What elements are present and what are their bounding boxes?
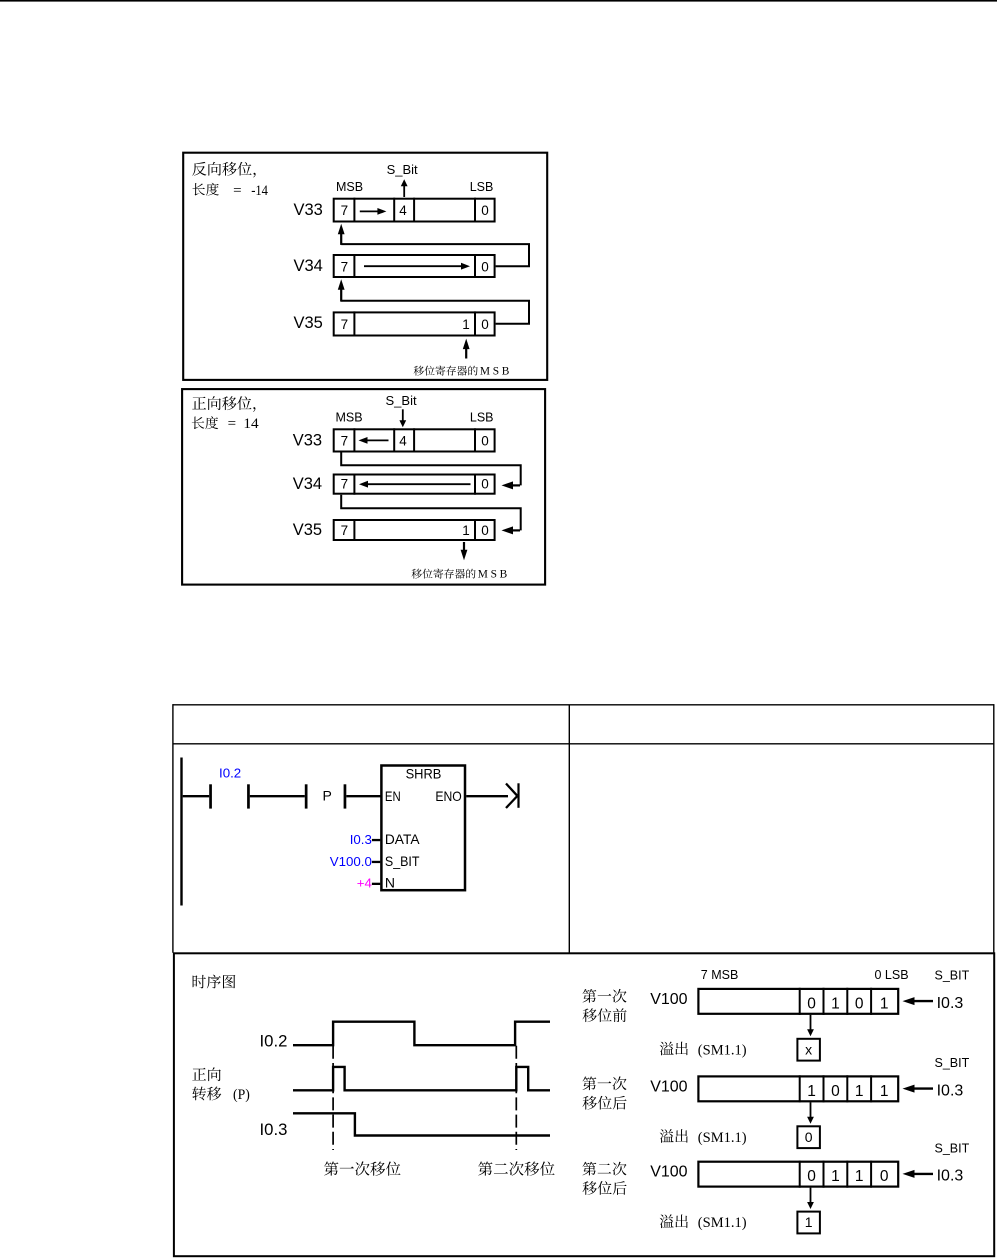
svg-text:4: 4 xyxy=(399,203,407,218)
svg-text:(P): (P) xyxy=(233,1087,250,1103)
svg-text:1: 1 xyxy=(855,1168,864,1185)
caption: chang du (length) box2 xyxy=(192,416,218,429)
svg-text:1: 1 xyxy=(855,1083,864,1100)
caption line2 (before first shift) xyxy=(583,1008,627,1022)
S_Bit arrow up (box1) xyxy=(401,179,408,197)
svg-text:ENO: ENO xyxy=(435,788,461,804)
MSB pointer arrow down (box2) xyxy=(461,542,468,560)
svg-text:V35: V35 xyxy=(293,521,322,539)
svg-text:-14: -14 xyxy=(251,183,268,199)
svg-text:V34: V34 xyxy=(294,257,323,275)
svg-text:0: 0 xyxy=(481,203,489,218)
table column divider xyxy=(568,705,570,953)
V33 divider d (box1) xyxy=(474,198,476,223)
svg-text:1: 1 xyxy=(462,523,470,538)
caption line2 (after first shift) xyxy=(583,1096,627,1110)
svg-text:DATA: DATA xyxy=(385,831,420,847)
svg-text:0: 0 xyxy=(481,434,489,449)
contact P left bar xyxy=(305,784,308,808)
wire contact I0.2 to contact P xyxy=(250,795,305,797)
input arrow from I0.3 (after second shift) xyxy=(903,1170,934,1178)
cell divider 1 (after second shift) xyxy=(799,1161,801,1188)
svg-text:I0.3: I0.3 xyxy=(350,832,372,847)
svg-text:=: = xyxy=(228,416,236,432)
svg-text:I0.2: I0.2 xyxy=(260,1032,288,1050)
svg-text:=: = xyxy=(233,183,241,199)
register V34 (box2) xyxy=(334,475,495,494)
V33 divider c (box2) xyxy=(413,428,415,452)
N pin tick xyxy=(372,883,380,885)
svg-text:7: 7 xyxy=(341,523,349,538)
caption: MSB of shift register (box1) xyxy=(414,365,478,375)
V35 divider b (box2) xyxy=(474,519,476,541)
svg-text:4: 4 xyxy=(399,434,407,449)
cell divider 4 (after second shift) xyxy=(870,1161,872,1188)
caption line2 (after second shift) xyxy=(583,1181,627,1195)
overflow arrow down (after second shift) xyxy=(807,1188,814,1209)
contact I0.2 right bar xyxy=(247,784,250,808)
V33 divider d (box2) xyxy=(474,428,476,452)
svg-text:0: 0 xyxy=(481,317,489,332)
contact I0.2 left bar xyxy=(209,784,212,808)
table left border xyxy=(172,704,174,953)
overflow arrow down (after first shift) xyxy=(807,1102,814,1123)
svg-text:0: 0 xyxy=(807,995,816,1012)
svg-text:0: 0 xyxy=(481,259,489,274)
register V33 (box2) xyxy=(334,429,495,451)
svg-text:+4: +4 xyxy=(357,876,372,891)
svg-text:0: 0 xyxy=(807,1168,816,1185)
register V35 (box1) xyxy=(334,312,495,335)
ENO arrow terminal bar xyxy=(517,783,519,808)
svg-text:14: 14 xyxy=(243,416,259,432)
cell divider 1 (before first shift) xyxy=(799,988,801,1015)
waveform I0.3 xyxy=(293,1113,550,1135)
svg-text:MSB: MSB xyxy=(480,366,510,378)
V33 divider b (box2) xyxy=(393,428,395,452)
waveform P pulse xyxy=(293,1067,550,1090)
cell divider 2 (after second shift) xyxy=(823,1161,825,1188)
caption: first shift xyxy=(324,1161,400,1175)
V33 divider b (box1) xyxy=(393,198,395,223)
svg-text:7: 7 xyxy=(341,434,349,449)
svg-text:P: P xyxy=(323,788,332,804)
top horizontal rule xyxy=(0,0,997,2)
label: zhuan yi (transition) xyxy=(192,1086,221,1100)
wire V33.7 down-right (box2) xyxy=(341,453,521,486)
svg-text:1: 1 xyxy=(880,995,889,1012)
MSB pointer arrow (box1) xyxy=(463,339,470,359)
svg-text:V33: V33 xyxy=(294,201,323,219)
svg-text:V100: V100 xyxy=(650,991,687,1008)
svg-text:1: 1 xyxy=(831,1168,840,1185)
register V34 (box1) xyxy=(334,255,495,277)
svg-text:S_BIT: S_BIT xyxy=(935,1141,970,1155)
overflow box (before first shift) xyxy=(797,1039,820,1061)
caption: overflow (before first shift) xyxy=(660,1042,688,1056)
caption: overflow (after first shift) xyxy=(660,1129,688,1143)
overflow box (after first shift) xyxy=(797,1126,820,1148)
svg-text:(SM1.1): (SM1.1) xyxy=(698,1042,747,1058)
wire arrow into V34 bit7 (box1) xyxy=(338,279,345,301)
wire arrow into V35 bit0 (box2) xyxy=(502,526,521,534)
V35 divider b (box1) xyxy=(474,311,476,336)
caption: zheng xiang yi wei (forward shift) xyxy=(192,396,255,412)
V35 divider a (box2) xyxy=(353,519,355,541)
svg-text:V35: V35 xyxy=(294,314,323,332)
svg-text:I0.3: I0.3 xyxy=(260,1121,288,1139)
caption: chang du (length) xyxy=(192,183,218,196)
svg-text:S_BIT: S_BIT xyxy=(935,969,970,983)
DATA pin tick xyxy=(372,839,380,841)
caption line1 (before first shift) xyxy=(583,989,627,1003)
svg-text:7: 7 xyxy=(341,259,349,274)
svg-text:LSB: LSB xyxy=(470,411,494,425)
register V100 (before first shift) xyxy=(698,989,898,1014)
svg-text:0: 0 xyxy=(880,1168,889,1185)
svg-text:1: 1 xyxy=(807,1083,816,1100)
svg-text:1: 1 xyxy=(805,1214,813,1230)
svg-text:(SM1.1): (SM1.1) xyxy=(698,1130,747,1146)
svg-text:7 MSB: 7 MSB xyxy=(701,968,739,982)
caption: MSB of shift register (box2) xyxy=(412,568,476,578)
cell divider 3 (before first shift) xyxy=(846,988,848,1015)
wire arrow into V34 bit0 (box2) xyxy=(502,481,521,489)
svg-text:1: 1 xyxy=(462,317,470,332)
table header bottom border xyxy=(173,743,994,745)
caption: timing diagram xyxy=(193,975,236,989)
svg-text:0: 0 xyxy=(855,995,864,1012)
svg-text:MSB: MSB xyxy=(478,569,508,581)
dashed marker first shift xyxy=(332,1046,334,1150)
table right border xyxy=(993,704,995,953)
register V35 (box2) xyxy=(334,520,495,540)
V35 divider a (box1) xyxy=(353,311,355,336)
svg-text:I0.3: I0.3 xyxy=(937,1082,964,1099)
svg-text:0: 0 xyxy=(481,523,489,538)
svg-text:x: x xyxy=(805,1041,812,1057)
V33 shift-left arrow (box2) xyxy=(359,437,389,444)
waveform I0.2 xyxy=(293,1022,550,1045)
wire ENO out xyxy=(466,795,508,797)
svg-text:0: 0 xyxy=(481,477,489,492)
cell divider 2 (before first shift) xyxy=(823,988,825,1015)
figure box 2 (forward shift, length=14) xyxy=(182,389,545,584)
cell divider 2 (after first shift) xyxy=(823,1075,825,1102)
svg-text:EN: EN xyxy=(385,788,401,804)
svg-text:0: 0 xyxy=(805,1129,813,1145)
S_Bit arrow down (box2) xyxy=(399,409,406,427)
svg-text:I0.2: I0.2 xyxy=(219,766,241,781)
svg-text:V100: V100 xyxy=(650,1164,687,1181)
LAD power rail xyxy=(180,758,182,906)
svg-text:MSB: MSB xyxy=(336,411,363,425)
svg-text:1: 1 xyxy=(831,995,840,1012)
cell divider 3 (after second shift) xyxy=(846,1161,848,1188)
wire contact P to SHRB EN xyxy=(346,795,382,797)
svg-text:V100.0: V100.0 xyxy=(330,854,372,869)
register V100 (after second shift) xyxy=(698,1162,898,1187)
svg-text:0: 0 xyxy=(831,1083,840,1100)
svg-text:0 LSB: 0 LSB xyxy=(875,968,909,982)
label: zheng xiang (positive) xyxy=(192,1067,221,1081)
caption: fan xiang yi wei (reverse shift) xyxy=(192,162,255,178)
svg-text:N: N xyxy=(385,875,395,891)
svg-text:V100: V100 xyxy=(650,1078,687,1095)
V34 divider a (box2) xyxy=(353,474,355,495)
ENO open arrow xyxy=(506,784,517,809)
input arrow from I0.3 (before first shift) xyxy=(903,997,934,1005)
wire V34.0 to V33.7 (box1) xyxy=(341,244,529,266)
svg-text:LSB: LSB xyxy=(470,180,494,194)
V34 shift-right arrow (box1) xyxy=(364,263,470,270)
svg-text:MSB: MSB xyxy=(336,180,363,194)
svg-text:7: 7 xyxy=(341,203,349,218)
svg-text:I0.3: I0.3 xyxy=(937,1168,964,1185)
cell divider 4 (after first shift) xyxy=(870,1075,872,1102)
SHRB function box xyxy=(381,766,465,891)
overflow arrow down (before first shift) xyxy=(807,1015,814,1036)
svg-text:SHRB: SHRB xyxy=(406,765,442,781)
caption line1 (after first shift) xyxy=(583,1076,627,1090)
V33 divider a (box1) xyxy=(353,198,355,223)
caption: second shift xyxy=(478,1161,554,1175)
V34 divider b (box2) xyxy=(474,474,476,495)
register V33 (box1) xyxy=(334,199,495,222)
svg-text:1: 1 xyxy=(880,1083,889,1100)
svg-text:S_Bit: S_Bit xyxy=(386,393,417,408)
svg-text:V33: V33 xyxy=(293,431,322,449)
caption: overflow (after second shift) xyxy=(660,1214,688,1228)
svg-text:I0.3: I0.3 xyxy=(937,995,964,1012)
V34 divider a (box1) xyxy=(353,254,355,278)
wire V35.0 to V34.7 (box1) xyxy=(341,301,529,324)
input arrow from I0.3 (after first shift) xyxy=(903,1085,934,1093)
register V100 (after first shift) xyxy=(698,1076,898,1101)
V33 divider a (box2) xyxy=(353,428,355,452)
cell divider 1 (after first shift) xyxy=(799,1075,801,1102)
contact P right bar xyxy=(344,784,347,808)
wire V34.7 down-right (box2) xyxy=(341,495,521,531)
svg-text:S_Bit: S_Bit xyxy=(387,162,418,177)
svg-text:S_BIT: S_BIT xyxy=(385,853,420,869)
table top border xyxy=(173,704,994,706)
svg-text:V34: V34 xyxy=(293,475,322,493)
S_BIT pin tick xyxy=(372,861,380,863)
V33 divider c (box1) xyxy=(413,198,415,223)
timing figure outer box (row3) xyxy=(174,953,994,1256)
dashed marker second shift xyxy=(515,1046,517,1150)
wire rail to contact I0.2 xyxy=(183,795,210,797)
V33 shift-right arrow (box1) xyxy=(360,208,387,215)
figure box 1 (reverse shift, length=-14) xyxy=(183,153,547,380)
svg-text:7: 7 xyxy=(341,317,349,332)
wire arrow into V33 bit7 (box1) xyxy=(338,224,345,245)
V34 divider b (box1) xyxy=(474,254,476,278)
V34 shift-left arrow (box2) xyxy=(359,481,471,488)
svg-text:S_BIT: S_BIT xyxy=(935,1056,970,1070)
cell divider 4 (before first shift) xyxy=(870,988,872,1015)
cell divider 3 (after first shift) xyxy=(846,1075,848,1102)
overflow box (after second shift) xyxy=(797,1212,820,1234)
caption line1 (after second shift) xyxy=(583,1162,627,1176)
svg-text:(SM1.1): (SM1.1) xyxy=(698,1215,747,1231)
svg-text:7: 7 xyxy=(341,477,349,492)
